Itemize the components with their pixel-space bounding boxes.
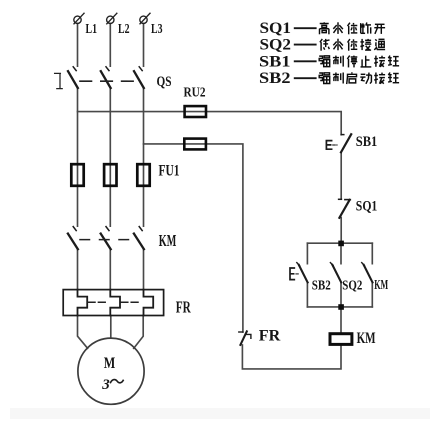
svg-text:KM: KM bbox=[357, 330, 376, 347]
svg-text:SQ2: SQ2 bbox=[260, 37, 292, 54]
svg-text:SB1: SB1 bbox=[356, 134, 378, 150]
svg-text:KM: KM bbox=[374, 277, 388, 292]
svg-text:SQ1: SQ1 bbox=[260, 20, 292, 37]
svg-text:KM: KM bbox=[159, 231, 177, 250]
svg-text:QS: QS bbox=[157, 74, 172, 90]
svg-text:RU2: RU2 bbox=[184, 86, 206, 101]
svg-text:SQ1: SQ1 bbox=[356, 198, 378, 214]
svg-text:FR: FR bbox=[176, 297, 191, 316]
svg-text:L1: L1 bbox=[86, 21, 98, 36]
svg-text:FR: FR bbox=[259, 328, 281, 345]
svg-text:L2: L2 bbox=[118, 21, 130, 36]
svg-text:SB2: SB2 bbox=[312, 277, 331, 292]
svg-text:SQ2: SQ2 bbox=[342, 277, 362, 292]
svg-text:FU1: FU1 bbox=[159, 163, 180, 180]
svg-text:SB1: SB1 bbox=[259, 53, 291, 70]
svg-text:M: M bbox=[104, 355, 116, 372]
svg-text:SB2: SB2 bbox=[259, 70, 291, 87]
svg-text:L3: L3 bbox=[151, 21, 163, 36]
svg-text:3: 3 bbox=[101, 377, 110, 393]
